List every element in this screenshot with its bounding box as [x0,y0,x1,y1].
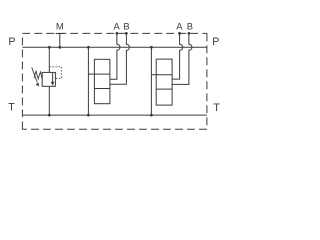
junction dot port A1 [116,32,119,35]
junction dot station2 tee on P rail [150,46,153,49]
svg-text:A: A [114,21,121,32]
station 1 P branch to window [88,73,94,75]
svg-text:T: T [8,102,15,114]
station 2 P feed wire [150,47,152,115]
junction dot port B1 [125,32,128,35]
relief valve adjust arrowhead [36,83,39,87]
relief valve flow arrow [52,73,54,83]
junction dot station1 tee on P rail [87,46,90,49]
junction dot relief tee on T rail [48,114,51,117]
station 1 P feed wire [87,47,89,115]
enclosure dashed border bottom [22,128,207,130]
relief valve outlet wire [48,86,50,115]
port M tick [56,33,64,35]
wire B1 with hop [110,34,130,85]
svg-text:B: B [123,21,129,32]
junction dot station1 tee on T rail [87,114,90,117]
enclosure dashed border top [22,32,207,34]
relief valve adjust arrow [32,67,38,82]
svg-text:B: B [187,21,193,32]
svg-text:A: A [176,21,183,32]
T rail [22,114,207,116]
port M stub [59,34,61,48]
relief valve flow arrowhead [51,82,55,86]
junction dot port A2 [178,32,181,35]
relief valve spring [34,71,42,79]
junction dot M tee on P rail [58,46,61,49]
wire A2 with hop [172,34,183,80]
station 2 P branch to window [151,74,156,76]
enclosure dashed border left [21,33,23,129]
junction dot relief tee on P rail [48,46,51,49]
P rail [22,46,207,48]
svg-text:P: P [8,36,15,48]
svg-text:T: T [213,102,220,114]
station 1 interface windows [94,59,110,103]
svg-text:P: P [212,36,219,48]
relief valve V1 body [42,72,55,86]
relief valve pilot line [49,67,61,79]
enclosure dashed border right [206,33,208,129]
junction dot station2 tee on T rail [150,114,153,117]
junction dot port B2 [188,32,191,35]
wire B2 with hop [172,34,192,85]
relief valve inlet wire [48,47,50,72]
svg-text:M: M [56,21,64,32]
station 2 interface windows [156,59,172,105]
wire A1 with hop [110,34,120,80]
